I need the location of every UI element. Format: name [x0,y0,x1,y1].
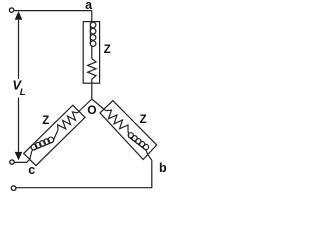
svg-text:Z: Z [42,115,49,127]
impedance box Z1 [83,22,99,84]
svg-text:c: c [28,163,35,177]
svg-text:b: b [159,161,167,175]
wire resistor to coil Z2 [53,130,58,142]
impedance box Z2 (left diagonal) [24,105,85,165]
svg-text:O: O [87,103,96,117]
resistor Z1 [88,59,96,84]
svg-text:Z: Z [104,44,111,56]
terminal top-left [9,8,13,12]
wire top horizontal to node a [14,10,92,12]
wire coil to resistor Z1 [91,46,93,58]
wire resistor to coil Z3 [127,131,130,136]
arrow down VL [15,152,23,161]
wire VL upper segment [18,20,20,79]
wire node a down to box Z1 [91,11,93,22]
resistor Z2 [58,112,78,130]
wire coil Z2 to exit and stub to c [15,151,32,163]
svg-text:Z: Z [140,114,147,126]
arrow up VL [15,11,23,20]
terminal bottom circle [11,186,16,191]
impedance box Z3 (right diagonal) [100,101,157,160]
inductor coil Z1 [89,23,91,46]
wire VL lower segment [18,98,20,152]
lead into resistor Z3 [104,109,106,111]
svg-text:L: L [20,87,26,98]
inductor coil Z2 [32,142,53,150]
wire coil Z3 exit to node b and down to bottom rail [16,150,152,187]
lead into resistor Z2 [77,111,80,114]
svg-text:a: a [85,0,93,12]
resistor Z3 [106,110,128,131]
wire node O to box Z2 [78,99,92,112]
wire node O to box Z3 [92,99,104,109]
inductor coil Z3 [129,137,147,151]
terminal c circle [10,160,14,164]
wire Z1 to node O vertex [91,83,93,99]
